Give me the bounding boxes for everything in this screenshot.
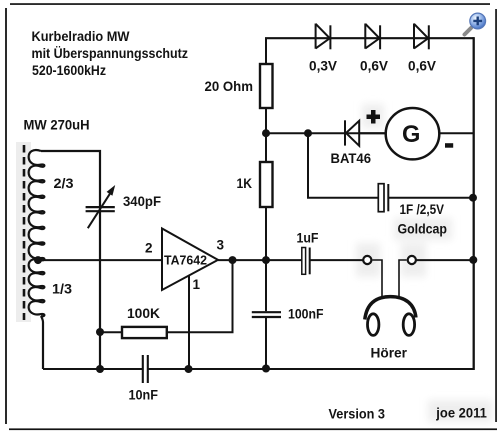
- svg-text:G: G: [402, 121, 420, 148]
- terminal T2 stub: [399, 260, 407, 297]
- node output: [229, 256, 237, 264]
- node 20ohm/1K: [262, 129, 270, 137]
- main input wire (pin 2): [38, 259, 162, 261]
- page frame right: [495, 9, 497, 422]
- svg-text:Hörer: Hörer: [371, 345, 408, 360]
- svg-text:1: 1: [193, 277, 201, 292]
- grey band behind coil core: [16, 142, 31, 322]
- svg-text:0,6V: 0,6V: [360, 59, 388, 74]
- svg-text:3: 3: [217, 238, 225, 253]
- wire BAT46 to meter: [359, 132, 386, 134]
- node coil tap: [34, 256, 42, 264]
- svg-text:1uF: 1uF: [297, 231, 319, 246]
- svg-text:20 Ohm: 20 Ohm: [205, 79, 254, 94]
- svg-text:2/3: 2/3: [54, 176, 75, 191]
- wire coil bottom down: [41, 316, 43, 369]
- svg-text:MW 270uH: MW 270uH: [24, 117, 90, 132]
- node pin1 ground: [185, 365, 193, 373]
- diode D3: [414, 24, 429, 50]
- output wire pin 3: [218, 259, 302, 261]
- meter G: [386, 108, 440, 159]
- svg-text:520-1600kHz: 520-1600kHz: [32, 62, 106, 78]
- svg-text:0,3V: 0,3V: [309, 59, 337, 74]
- resistor R1 20 Ohm: [265, 38, 267, 64]
- goldcap right wire: [389, 197, 474, 199]
- svg-text:Kurbelradio MW: Kurbelradio MW: [32, 28, 131, 44]
- resistor R2 1K: [265, 133, 267, 162]
- svg-text:2: 2: [145, 241, 153, 256]
- page frame left: [5, 8, 7, 424]
- node right rail out: [469, 256, 477, 264]
- svg-text:100nF: 100nF: [288, 307, 324, 322]
- svg-text:Goldcap: Goldcap: [398, 222, 448, 237]
- pin 1 wire: [188, 276, 190, 370]
- terminal T1: [363, 256, 371, 264]
- wire 1uF to terminal: [311, 259, 364, 261]
- node goldcap branch: [304, 129, 312, 137]
- svg-text:BAT46: BAT46: [331, 151, 372, 166]
- svg-text:Version 3: Version 3: [329, 406, 386, 422]
- variable capacitor arrow: [88, 193, 111, 228]
- svg-text:mit Überspannungsschutz: mit Überspannungsschutz: [32, 45, 189, 61]
- variable capacitor C1 340pF plates: [86, 206, 115, 208]
- svg-text:0,6V: 0,6V: [408, 59, 436, 74]
- scan smudges: [356, 104, 492, 422]
- bottom ground rail: [43, 368, 142, 370]
- node 100nF ground: [262, 365, 270, 373]
- headphone band: [365, 297, 416, 320]
- minus symbol: [445, 143, 453, 148]
- svg-text:10nF: 10nF: [129, 388, 159, 403]
- svg-text:340pF: 340pF: [123, 194, 161, 209]
- capacitor C5 10nF plates: [142, 355, 144, 383]
- page frame bottom: [9, 428, 497, 430]
- wire coil top to tuning cap: [41, 151, 100, 212]
- node 1K bottom: [262, 256, 270, 264]
- diode D2: [365, 24, 380, 50]
- terminal T1 stub: [372, 260, 382, 297]
- resistor R3 100K wires: [100, 331, 121, 333]
- svg-text:1F /2,5V: 1F /2,5V: [400, 202, 445, 217]
- wire meter to right rail: [439, 132, 474, 134]
- node 100K left: [96, 328, 104, 336]
- diode D4 BAT46: [345, 120, 359, 146]
- mid wire: [266, 132, 386, 134]
- right rail: [473, 37, 475, 370]
- capacitor C3 1uF plates: [302, 248, 306, 275]
- wire tuning cap down to ground rail: [99, 211, 101, 369]
- plus symbol: [367, 110, 381, 124]
- capacitor C2 goldcap plates: [378, 184, 384, 212]
- top wire: [265, 37, 474, 39]
- svg-text:1K: 1K: [237, 176, 253, 191]
- headphone right cup: [403, 314, 414, 336]
- inductor L1 coil: [29, 150, 45, 316]
- 100nF branch wires: [265, 260, 267, 311]
- magnifier icon: [465, 13, 486, 34]
- svg-text:joe 2011: joe 2011: [435, 404, 487, 420]
- goldcap branch wire: [308, 133, 379, 198]
- node goldcap right: [469, 194, 477, 202]
- node ground/cap branch: [96, 365, 104, 373]
- ferrite core dashed line: [23, 145, 26, 320]
- svg-text:100K: 100K: [127, 306, 160, 321]
- terminal T2: [408, 256, 416, 264]
- svg-text:1/3: 1/3: [52, 282, 73, 297]
- wire terminal T2 to right rail: [416, 259, 474, 261]
- headphone left cup: [368, 314, 379, 336]
- op-amp U1 TA7642 triangle: [162, 229, 218, 291]
- svg-text:TA7642: TA7642: [164, 254, 207, 268]
- capacitor C4 100nF plates: [252, 311, 281, 313]
- diode D1: [316, 24, 331, 50]
- page frame top: [10, 3, 490, 5]
